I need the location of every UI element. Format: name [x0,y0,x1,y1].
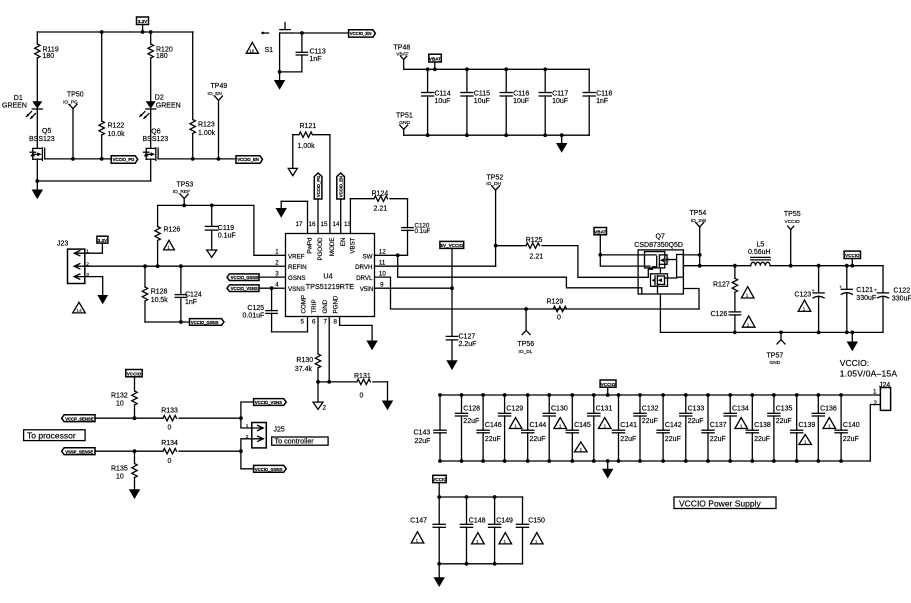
resistor R121 1.00k [293,123,330,150]
capacitor C119 0.1uF [205,205,235,250]
svg-text:R125: R125 [526,237,543,244]
node C114 top [426,67,430,71]
svg-text:8: 8 [334,319,338,326]
svg-text:IO_PG: IO_PG [63,99,78,105]
transistor Q7 CSD87350Q5D [634,233,683,294]
svg-text:1: 1 [740,424,743,430]
svg-text:TP53: TP53 [177,181,194,188]
svg-text:VCCIO_GSNS: VCCIO_GSNS [255,467,283,472]
capacitor C135 22uF [768,395,793,461]
node C139 bottom [795,459,799,463]
warning triangle 1 (C126) [742,316,755,328]
pin 7 GND [322,299,329,382]
test point TP56 IO_DL [517,309,534,355]
svg-text:C114: C114 [435,91,451,98]
capacitor C150 [516,497,545,564]
svg-text:C129: C129 [506,406,523,413]
svg-text:VCCIO: VCCIO [785,219,800,225]
node TP57 tap [779,331,783,335]
svg-text:GND: GND [399,120,410,126]
svg-text:C137: C137 [710,422,727,429]
node gnd stem (output) [850,331,854,335]
node TP50 tap [71,157,75,161]
pin 1 VREF [275,249,305,261]
resistor R127 [713,266,738,312]
resistor R126 [155,227,180,267]
svg-text:C146: C146 [485,422,502,429]
wire R128/C124 bottom [145,321,190,323]
svg-text:VCCIO: VCCIO [432,477,447,482]
node R127 tap [733,264,737,268]
svg-text:+: + [874,289,877,294]
svg-text:VCCIO: VCCIO [601,382,616,387]
svg-text:VCCIO:: VCCIO: [840,358,869,368]
net label VCCIO_GSNS (J25) [254,465,287,472]
svg-text:C126: C126 [711,311,728,318]
svg-text:C115: C115 [474,91,490,98]
pin 13 VBST riser [344,199,357,254]
svg-text:PwPd: PwPd [307,237,314,254]
svg-text:R132: R132 [111,392,128,399]
wire Q5 source down [36,159,38,181]
capacitor C118 1nF [583,69,612,135]
node C143 top [438,393,442,397]
svg-text:C135: C135 [776,406,793,413]
svg-text:C122: C122 [893,288,910,295]
resistor R122 10.0k [99,32,125,159]
node R128 tap [143,264,147,268]
svg-text:U4: U4 [323,271,332,280]
node TP55 tap [789,264,793,268]
warning triangle 1 (R127) [741,287,754,299]
capacitor C115 10uF [461,69,490,135]
pin 5 COMP [301,295,308,332]
svg-text:VCCP_SENSE: VCCP_SENSE [65,416,94,421]
test point TP50 IO_PG [63,92,84,159]
node C131 top [592,393,596,397]
node GND pin tap [327,380,331,384]
node SW junction [396,253,400,257]
svg-text:1: 1 [803,307,806,313]
svg-text:2: 2 [323,404,327,411]
net label VCCIO_EN (vertical) [337,173,345,199]
node junction rail/R122 [100,30,104,34]
transistor Q6 BSS123 [143,129,169,161]
svg-text:TP50: TP50 [67,92,84,99]
node C147 bottom [437,562,441,566]
svg-text:TP56: TP56 [517,341,534,348]
node C149 bottom [493,562,497,566]
svg-text:R128: R128 [151,289,168,296]
node C140 top [839,393,843,397]
svg-text:D1: D1 [14,95,23,102]
ground (J23 pin3) [97,295,108,304]
warning triangle 16 [246,42,258,54]
node C136 bottom [816,459,820,463]
wire VBAT into Q7 [600,254,656,256]
wire C147 bank top rail [439,496,522,498]
node S1/C113 junction [300,31,304,35]
net label VCCP_SENSE [62,415,95,422]
capacitor C122 330uF (polarized) [874,266,911,333]
wire C147 bank bottom rail [439,563,522,565]
warning triangle 14 [73,302,86,314]
pin 17 PwPd [296,201,314,253]
capacitor C149 [489,497,514,564]
svg-text:C121: C121 [856,287,873,294]
wire bank bottom rail [440,460,870,462]
svg-text:TRIP: TRIP [311,299,318,313]
inductor L5 0.56uH [748,241,771,265]
svg-text:0.56uH: 0.56uH [748,249,771,256]
svg-text:S1: S1 [265,47,274,54]
svg-text:TP49: TP49 [211,83,228,90]
capacitor C138 22uF [746,395,771,461]
node VBAT/Q7 corner [598,253,602,257]
warning triangle 1 (R126) [164,240,175,251]
power symbol 3.3V (top) [137,17,149,32]
svg-text:Q7: Q7 [656,233,665,240]
test point TP48 VBAT [394,45,411,70]
capacitor C125 0.01uF [243,288,278,332]
capacitor C137 22uF [702,395,727,461]
capacitor C130 [543,395,568,461]
node C146 bottom [481,459,485,463]
svg-text:C149: C149 [496,517,513,524]
node VCCIO stem (bank) [606,393,610,397]
svg-text:10.5k: 10.5k [151,297,169,304]
node C145 bottom [570,459,574,463]
node R132 bottom junction [133,416,137,420]
svg-text:GND: GND [770,360,781,366]
svg-text:5V_VCCIO: 5V_VCCIO [440,243,463,248]
svg-text:C147: C147 [410,517,427,524]
svg-text:0.1uF: 0.1uF [415,228,431,235]
node R130/analog gnd [316,380,320,384]
svg-text:SW: SW [363,253,373,260]
svg-text:R124: R124 [372,190,389,197]
ground (output) [847,332,858,351]
node R135 top junction [133,449,137,453]
svg-text:0.01uF: 0.01uF [243,312,265,319]
net label VCCIO_EN (S1) [349,30,376,37]
svg-text:R134: R134 [161,440,178,447]
resistor R125 2.21 [496,237,578,260]
svg-text:22uF: 22uF [710,436,726,443]
svg-text:J25: J25 [274,426,285,433]
wire S1 left leg [279,33,281,72]
wire DRVL down to gate line [391,277,700,309]
node V5IN junction [450,286,454,290]
svg-text:11: 11 [379,260,386,267]
svg-text:10: 10 [116,473,124,480]
LED D1 GREEN [2,95,42,148]
ground open (R121) [288,135,297,176]
svg-text:VCCIO_EN: VCCIO_EN [350,31,372,36]
test point TP54 IO_SW [690,210,707,266]
svg-text:1: 1 [476,539,479,545]
svg-text:BSS123: BSS123 [29,136,55,143]
ground (VBAT caps) [556,135,567,153]
svg-text:0.1uF: 0.1uF [218,232,236,239]
wire VSSP_SENSE to R134 [95,450,163,452]
node C123 bottom [817,331,821,335]
capacitor C126 [711,311,741,333]
svg-text:22uF: 22uF [642,418,658,425]
node C121 tap [845,264,849,268]
text VCCIO spec [840,358,898,378]
svg-text:0: 0 [168,424,172,431]
svg-text:R133: R133 [161,407,178,414]
ground open (C119) [207,250,217,257]
net label VCCIO_EN (gate) [236,156,263,164]
wire DRVH riser [496,246,523,267]
svg-text:DRVL: DRVL [356,275,373,282]
svg-text:1.00k: 1.00k [198,130,216,137]
svg-text:22uF: 22uF [688,418,704,425]
net label VCCIO_PG (vertical) [314,173,322,199]
capacitor C117 10uF [539,69,568,135]
svg-text:1: 1 [514,424,517,430]
pin 8 PGND [333,295,340,325]
capacitor C128 22uF [455,395,480,461]
svg-text:1: 1 [873,389,877,396]
node C138 top [750,393,754,397]
svg-text:VCCIO: VCCIO [845,253,860,258]
node C143 bottom [438,459,442,463]
capacitor C132 22uF [634,395,659,461]
capacitor C148 [460,497,485,564]
net label VCCIO_GSNS (pin3) [227,274,276,281]
wire Q7 gnd drop [660,294,735,332]
svg-text:22uF: 22uF [754,436,770,443]
node C115 bottom [465,133,469,137]
resistor R131 0 [354,373,388,399]
capacitor C123 (polarized) [794,266,824,333]
node C135 top [772,393,776,397]
svg-text:16: 16 [249,48,255,54]
svg-text:330uF: 330uF [892,295,911,302]
svg-text:10uF: 10uF [474,98,490,105]
node C116 top [504,67,508,71]
svg-text:1: 1 [167,245,170,251]
wire Q6 source down [150,159,152,181]
svg-text:R130: R130 [296,357,313,364]
svg-text:+: + [812,289,815,294]
node gnd stem [560,133,564,137]
node S1 gnd junction [278,70,282,74]
node C148 bottom [465,562,469,566]
svg-text:7: 7 [324,319,328,326]
svg-text:C118: C118 [596,91,612,98]
node C128 bottom [460,459,464,463]
power symbol 3.3V (J23) [97,236,108,243]
pin 11 DRVH [355,260,496,272]
svg-text:GND: GND [322,299,329,313]
connector J25 [246,423,285,448]
node C146 top [481,393,485,397]
svg-text:22uF: 22uF [415,438,431,445]
svg-text:VSNS: VSNS [288,286,305,293]
pin 15 MODE riser [321,135,337,256]
svg-text:TPS51219RTE: TPS51219RTE [306,282,354,291]
svg-text:VCCIO_EN: VCCIO_EN [339,176,344,197]
svg-text:R131: R131 [354,373,371,380]
resistor R119 180 [35,32,59,101]
svg-text:0: 0 [360,393,364,400]
svg-text:14: 14 [76,308,82,314]
node junction rail/3.3V [141,30,145,34]
test point TP55 VCCIO [784,211,801,266]
svg-text:22uF: 22uF [530,436,546,443]
svg-text:C132: C132 [642,406,659,413]
wire to VCCIO_VSNS label [241,402,254,418]
ground (R131) [382,382,393,410]
node C129 bottom [503,459,507,463]
node C131 bottom [592,459,596,463]
svg-text:1nF: 1nF [310,56,322,63]
wire to VCCIO_GSNS label [241,451,254,469]
svg-text:C133: C133 [688,406,705,413]
svg-text:C123: C123 [794,291,811,298]
wire Q7 SW out [683,265,750,267]
switch S1 [262,23,293,55]
svg-text:C119: C119 [218,225,234,232]
svg-text:10.0k: 10.0k [108,131,126,138]
node source/gnd junction [35,179,39,183]
svg-text:TP55: TP55 [784,211,801,218]
svg-text:22uF: 22uF [485,436,501,443]
node C128 top [460,393,464,397]
node C124 tap [179,264,183,268]
node C148 top [465,495,469,499]
svg-text:VCCIO_PG: VCCIO_PG [113,157,135,162]
resistor R135 10 [111,451,137,489]
svg-text:1: 1 [535,539,538,545]
test point TP57 GND [767,332,786,366]
svg-text:1: 1 [275,249,279,256]
svg-text:VCCIO_GSNS: VCCIO_GSNS [191,320,219,325]
svg-text:GSNS: GSNS [288,275,306,282]
net label VCCIO_GSNS (C124) [190,319,225,326]
svg-text:VCCIO_VSNS: VCCIO_VSNS [231,286,258,291]
svg-text:VBAT: VBAT [429,56,441,61]
node C142 bottom [661,459,665,463]
svg-text:10uF: 10uF [435,98,451,105]
svg-text:R123: R123 [198,121,215,128]
resistor R133 0 [161,407,241,431]
node TP54/drain-sense [698,253,702,257]
node VBAT stem [433,67,437,71]
capacitor C127 2.2uF [446,288,476,360]
svg-text:180: 180 [43,53,55,60]
node VCCIO stem tap [850,264,854,268]
node C142 top [661,393,665,397]
node C140 bottom [839,459,843,463]
node C141 bottom [617,459,621,463]
capacitor C142 22uF [657,395,682,461]
svg-text:C145: C145 [574,422,591,429]
wire J23 pin1 to 3.3V [85,243,103,253]
wire output gnd rail [735,331,883,333]
wire SW output rail [770,265,883,267]
svg-text:IO_DL: IO_DL [519,349,533,355]
ground (LED block) [32,181,43,199]
wire S1 bottom [280,71,302,73]
warning triangle 1 (C149) [499,533,512,545]
svg-text:C142: C142 [665,422,682,429]
power symbol VCCIO (cap bank) [600,380,616,395]
node R122 tap [100,157,104,161]
svg-text:10: 10 [116,401,124,408]
node C144 top [526,393,530,397]
node C124 bottom junction [179,320,183,324]
wire Q5 gate net VCCIO_PG [45,158,112,160]
svg-text:VCCIO_EN: VCCIO_EN [237,157,259,162]
ground open 2 (analog) [313,382,327,411]
net label VCCIO_VSNS (J25) [254,399,287,406]
ground (PwPd) [276,201,308,218]
wire bank top rail [440,394,880,396]
resistor R129 0 [547,298,567,321]
node junction rail/R120 [149,30,153,34]
node C132 top [638,393,642,397]
svg-text:22uF: 22uF [463,418,479,425]
net label VSSP_SENSE [62,448,95,455]
node TP56 tap [524,307,528,311]
capacitor C136 [812,395,837,461]
node C117 top [543,67,547,71]
svg-text:1.00k: 1.00k [298,143,316,150]
svg-text:1: 1 [416,538,419,544]
svg-text:12: 12 [379,249,386,256]
connector J23 [57,240,89,283]
capacitor C114 10uF [422,69,451,135]
wire J25 pin2 [241,439,252,451]
svg-text:VREF: VREF [288,253,305,260]
svg-text:0: 0 [557,315,561,322]
capacitor C121 330uF (polarized) [839,266,876,333]
svg-text:PGND: PGND [333,295,340,313]
svg-text:1: 1 [746,293,749,299]
svg-text:10uF: 10uF [552,98,568,105]
resistor R120 180 [148,32,173,101]
node R126 tap [156,264,160,268]
svg-text:15: 15 [321,221,328,228]
svg-text:PGOOD: PGOOD [317,237,324,261]
svg-text:To controller: To controller [275,437,315,446]
node TP52 tap [494,244,498,248]
svg-text:17: 17 [296,221,303,228]
capacitor C129 [499,395,524,461]
svg-text:Q5: Q5 [42,128,51,135]
warning triangle 1 (C147) [411,532,424,544]
svg-text:GREEN: GREEN [156,103,181,110]
svg-text:+: + [839,285,842,290]
svg-text:1: 1 [503,539,506,545]
capacitor C116 10uF [500,69,529,135]
capacitor C140 22uF [835,395,860,461]
svg-text:R135: R135 [111,465,128,472]
node TP54/SW junction [698,264,702,268]
pin 12 SW [363,249,408,261]
wire VBAT top rail [404,68,590,70]
capacitor C141 22uF [612,395,637,461]
node C135 bottom [772,459,776,463]
svg-text:3.3V: 3.3V [98,238,108,243]
test point TP52 IO_DH [486,175,503,246]
svg-text:J23: J23 [57,240,68,247]
